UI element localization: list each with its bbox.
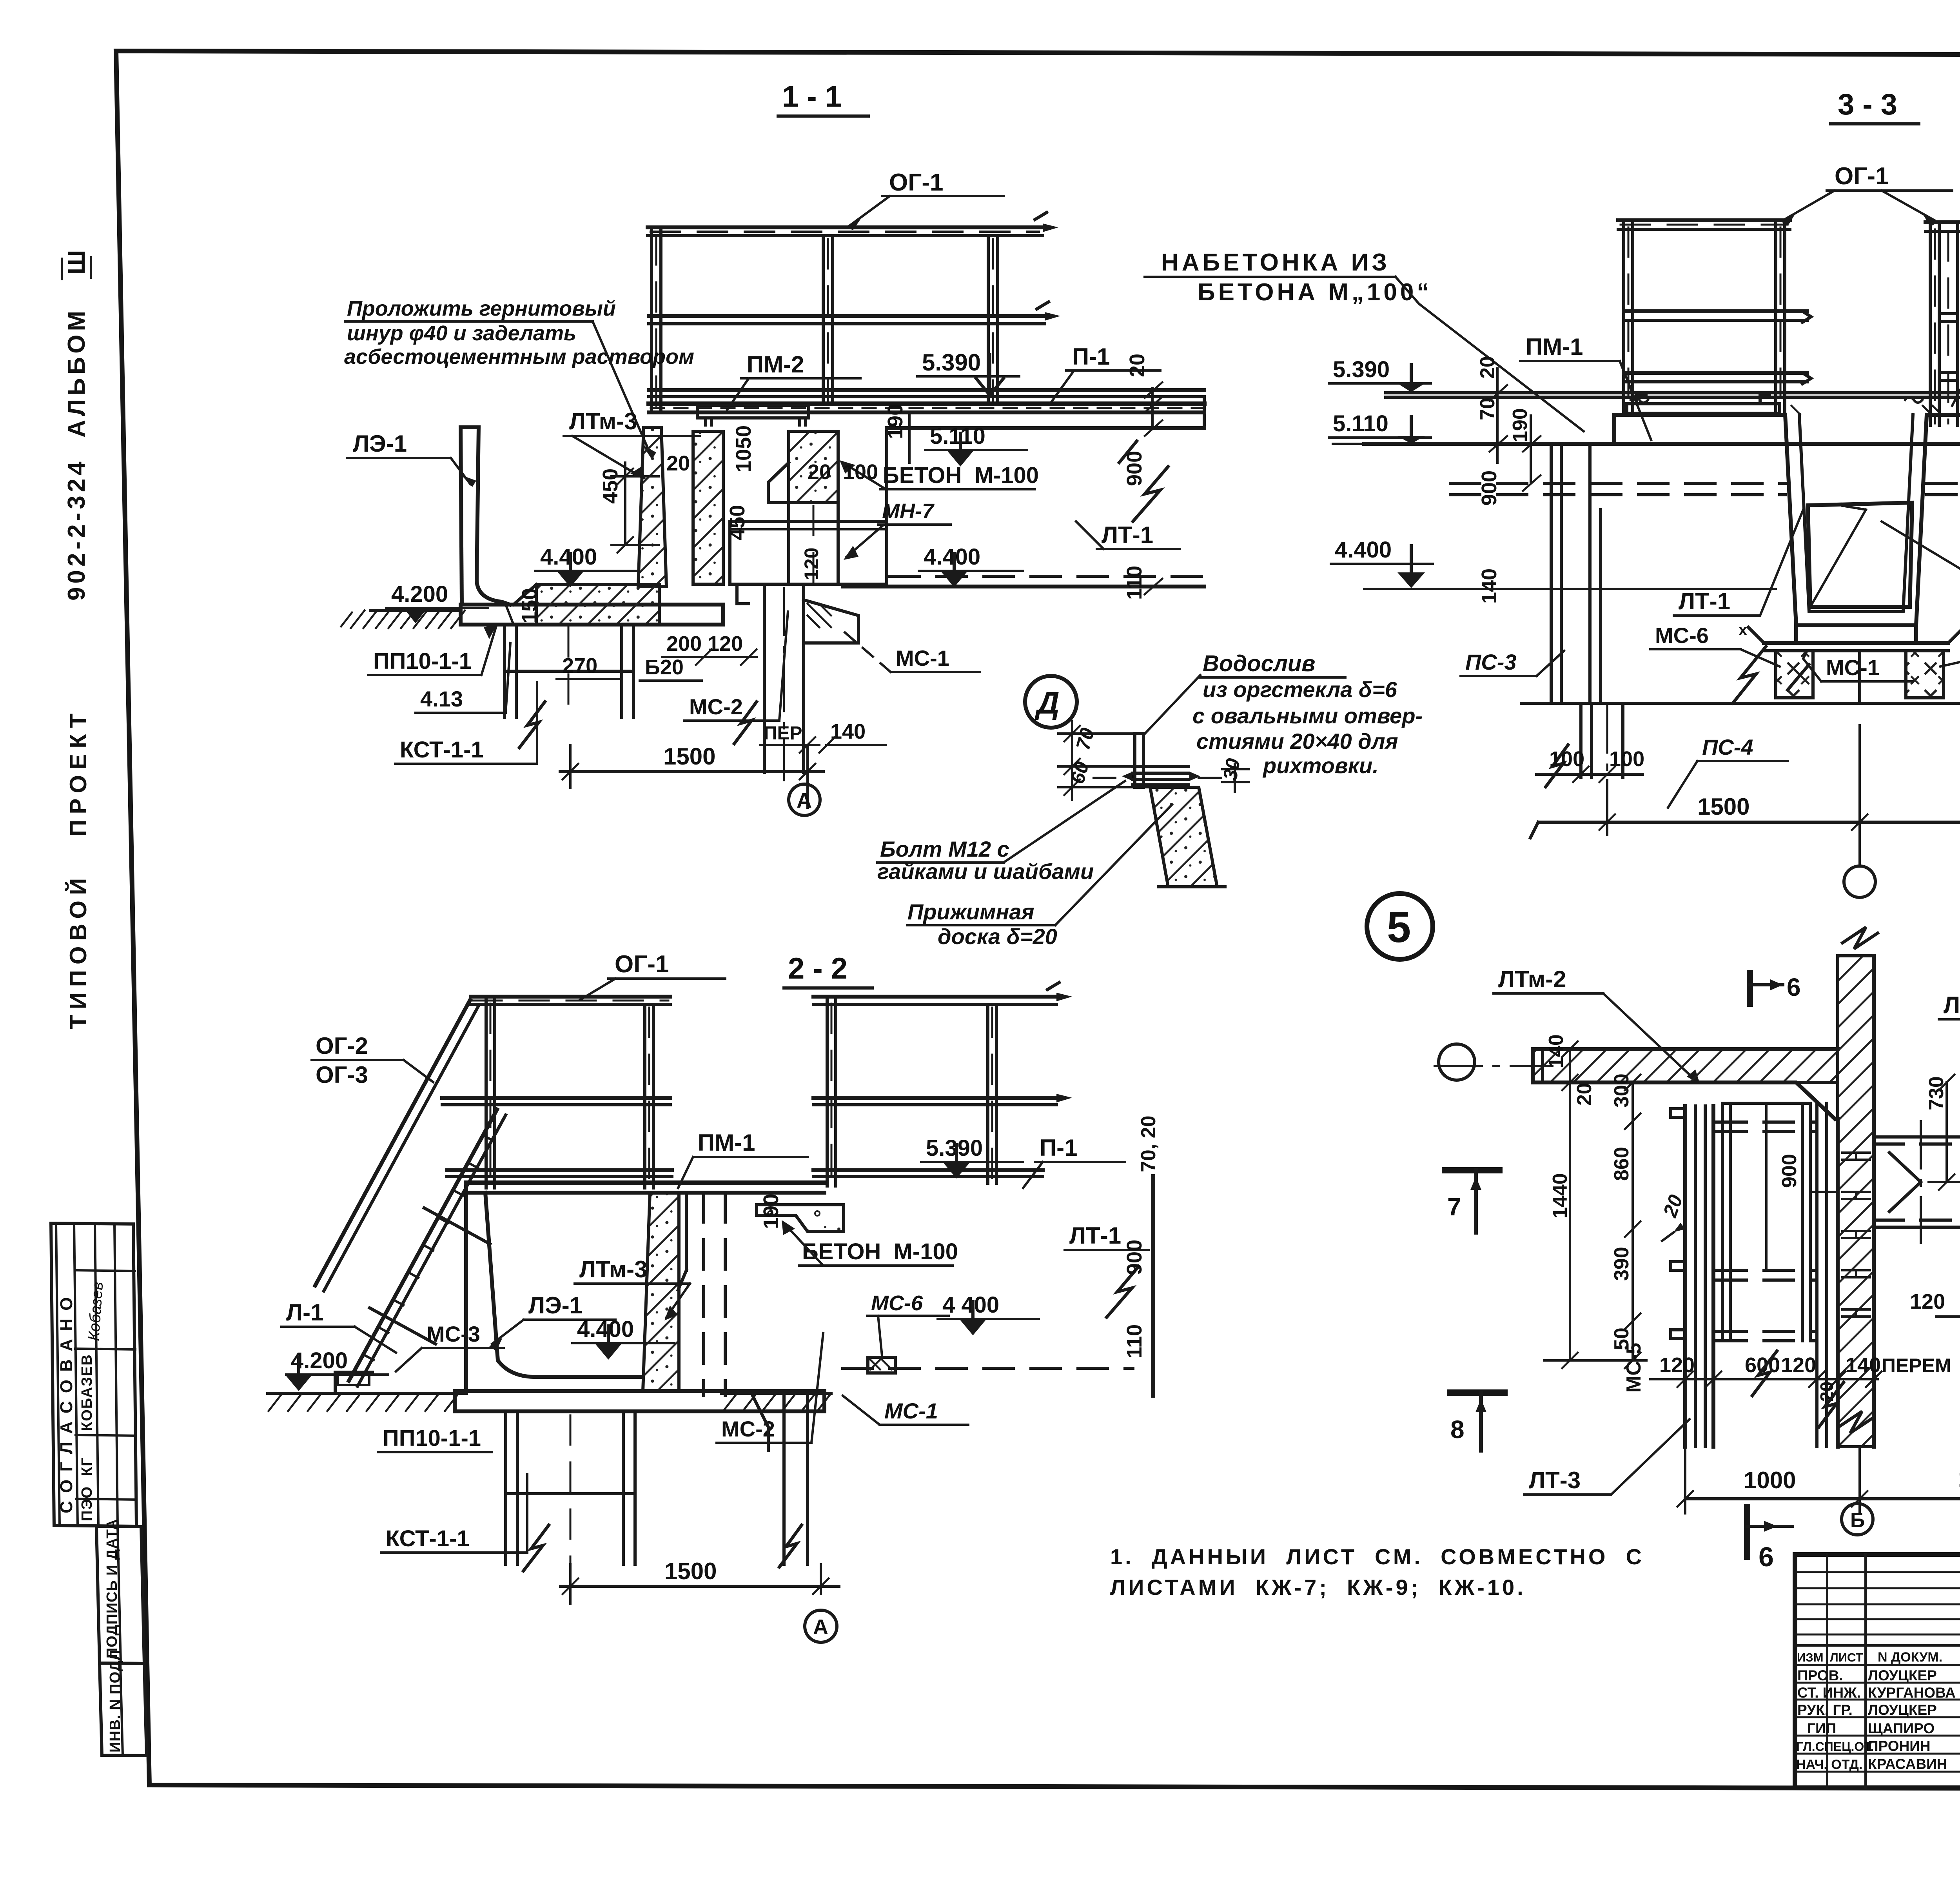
stamp table bottom-left: SOGLASOVANO block (51, 1223, 136, 1526)
svg-text:стиями 20×40 для: стиями 20×40 для (1196, 729, 1398, 754)
axis circle A (1-1) (789, 784, 820, 815)
node5 top wall horizontal hatched (1533, 1049, 1838, 1119)
label PM-1 (3-3) (1520, 334, 1651, 440)
svg-text:70, 20: 70, 20 (1137, 1115, 1160, 1172)
node5 dim 900 inside (1766, 1103, 1835, 1270)
svg-text:МС-1: МС-1 (896, 646, 949, 670)
svg-text:120: 120 (800, 548, 822, 580)
svg-text:4.400: 4.400 (1335, 537, 1392, 563)
2-2 left railing (442, 997, 672, 1188)
svg-text:П-1: П-1 (1072, 343, 1110, 370)
1-1 ground line and hatch (341, 581, 488, 628)
svg-text:СТ. ИНЖ.: СТ. ИНЖ. (1797, 1685, 1861, 1701)
label LTm-3 (564, 408, 700, 480)
1-1 railing mid rail (649, 302, 1060, 324)
svg-text:ИЗМ: ИЗМ (1797, 1651, 1824, 1664)
3-3 axis line and circle (1844, 725, 1875, 897)
svg-text:МС-1: МС-1 (1826, 655, 1880, 680)
svg-text:НАБЕТОНКА ИЗ: НАБЕТОНКА ИЗ (1161, 249, 1390, 276)
svg-text:450: 450 (599, 469, 622, 504)
node5 axis circle left (1435, 1044, 1552, 1080)
svg-text:ЛИСТАМИ КЖ-7; КЖ-9; КЖ-10.: ЛИСТАМИ КЖ-7; КЖ-9; КЖ-10. (1110, 1575, 1526, 1600)
label OG-1 (3-3) (1781, 163, 1952, 227)
svg-text:ПМ-1: ПМ-1 (698, 1130, 755, 1156)
label LTm-2 (node5) (1494, 966, 1700, 1084)
labels bottom 1-1 (368, 588, 980, 764)
svg-text:гайками и шайбами: гайками и шайбами (877, 859, 1094, 884)
svg-text:270: 270 (562, 654, 597, 677)
label PM-2 (727, 351, 860, 410)
1-1 lower rail / platform handrail (649, 390, 1204, 397)
2-2 dim 1500 (561, 1558, 839, 1604)
2-2 platform PM-1 label (678, 1130, 808, 1188)
label Beton M-100 (1-1) (840, 460, 1039, 489)
1-1 base slab (461, 605, 723, 625)
svg-text:КРАСАВИН: КРАСАВИН (1868, 1756, 1947, 1772)
svg-text:4.13: 4.13 (420, 686, 463, 711)
svg-text:ЛТм-2: ЛТм-2 (1498, 966, 1566, 992)
svg-text:900: 900 (1477, 470, 1501, 506)
svg-text:4 400: 4 400 (942, 1292, 999, 1318)
sheet note (1110, 1544, 1644, 1600)
2-2 MS-6 bracket (867, 1291, 949, 1373)
2-2 stair stringers L-1 (321, 1110, 506, 1393)
svg-text:7: 7 (1447, 1193, 1461, 1221)
svg-text:ЛОУЦКЕР: ЛОУЦКЕР (1868, 1702, 1937, 1718)
svg-text:120: 120 (1659, 1353, 1695, 1377)
2-2 PP10-1-1 label (378, 1426, 492, 1452)
svg-text:1. ДАННЫИ ЛИСТ СМ. СОВМЕСТ: 1. ДАННЫИ ЛИСТ СМ. СОВМЕСТНО С (1110, 1544, 1644, 1569)
svg-text:Ш: Ш (63, 250, 90, 274)
section marker 6 bottom (1747, 1507, 1793, 1572)
svg-text:390: 390 (1610, 1247, 1633, 1281)
level mark 4.400 left (1-1) (535, 544, 639, 587)
1-1 break mark on LT-1 (1119, 441, 1168, 521)
label OG-1 (1-1) (847, 169, 1004, 230)
2-2 LT-1 (843, 1176, 1153, 1396)
weir detail dims 60 70 (1058, 721, 1149, 800)
left margin vertical text: TIPOVOI PROEKT (65, 708, 91, 1029)
labels MS-6 MS-1 (3-3) (1650, 623, 1960, 702)
1-1 right hatched pier + MN-7 box (768, 431, 838, 584)
2-2 level 4400 right (938, 1292, 1039, 1335)
1-1 dim 1500 (560, 743, 823, 808)
svg-text:ПЭО КГ: ПЭО КГ (79, 1457, 95, 1521)
svg-text:1 - 1: 1 - 1 (782, 80, 842, 113)
svg-text:5.390: 5.390 (922, 349, 981, 376)
detail D circle (mid page) (1025, 676, 1077, 728)
note nabetonka (1145, 249, 1584, 431)
svg-text:120: 120 (708, 632, 743, 656)
svg-text:1000: 1000 (1744, 1467, 1796, 1493)
level 4.200 (2-2) (285, 1348, 388, 1391)
svg-text:140: 140 (830, 720, 866, 743)
svg-text:x: x (1739, 621, 1747, 639)
2-2 tank floor slab (455, 1391, 824, 1411)
title block small table grid (1795, 1554, 1960, 1788)
section marker 6 top (1750, 973, 1801, 1004)
svg-text:120: 120 (1781, 1353, 1816, 1377)
svg-text:ПЕР: ПЕР (764, 723, 802, 744)
svg-text:ОГ-1: ОГ-1 (1835, 163, 1889, 190)
svg-text:120: 120 (1910, 1290, 1945, 1313)
1-1 walkway plank PM-2 (697, 405, 809, 425)
level mark 4.400 right (1-1) (919, 544, 1023, 587)
svg-text:Прижимная: Прижимная (907, 899, 1034, 924)
1-1 wall LTm-3 hatched (638, 427, 666, 587)
note bolt M12 (877, 781, 1125, 884)
node5 wall inner edge (1838, 956, 1874, 1447)
svg-text:ТИПОВОЙ ПРОЕКТ: ТИПОВОЙ ПРОЕКТ (65, 708, 91, 1029)
2-2 beton label (782, 1220, 958, 1266)
left margin vertical text: 902-2-324 ALBOM III (62, 250, 91, 601)
node5 dims 1000 1500 (1677, 1447, 1960, 1513)
level mark 5.110 (1-1) (925, 423, 1027, 467)
note prolozhit gernitovy shnur (344, 297, 694, 459)
heading 1-1 (778, 80, 868, 116)
3-3 left railing (1618, 220, 1811, 413)
3-3 platform slab (1364, 393, 1960, 444)
weir detail dim 30 (1219, 757, 1249, 792)
1-1 middle hatched pier (693, 431, 723, 584)
svg-text:20: 20 (1817, 1382, 1837, 1402)
svg-text:902-2-324 АЛЬБОМ: 902-2-324 АЛЬБОМ (63, 307, 90, 601)
svg-text:КСТ-1-1: КСТ-1-1 (386, 1526, 470, 1551)
svg-text:4.400: 4.400 (924, 544, 980, 570)
3-3 bottom break line (1521, 646, 1960, 703)
svg-text:ЛТ-3: ЛТ-3 (1529, 1467, 1581, 1493)
label MN-7 (844, 499, 951, 560)
svg-text:70: 70 (1476, 398, 1499, 420)
svg-text:900: 900 (1123, 1240, 1146, 1275)
svg-text:1440: 1440 (1549, 1173, 1572, 1219)
3-3 dims left rotated (1476, 356, 1541, 604)
svg-text:150: 150 (518, 588, 541, 623)
svg-text:шнур φ40 и заделать: шнур φ40 и заделать (347, 321, 576, 345)
svg-text:А: А (797, 789, 812, 812)
3-3 dims 100 100 (1537, 747, 1644, 782)
svg-text:ПЕРЕМ: ПЕРЕМ (1882, 1355, 1951, 1377)
node circle 5 (1367, 893, 1433, 959)
title block frame (1795, 1554, 1960, 1788)
svg-text:Б20: Б20 (645, 656, 684, 679)
label L-1 (281, 1299, 396, 1353)
svg-text:МС-1: МС-1 (884, 1398, 938, 1423)
svg-text:ГЛ.СПЕЦ.ОТ.: ГЛ.СПЕЦ.ОТ. (1796, 1740, 1874, 1754)
1-1 railing top rail (648, 212, 1058, 236)
svg-text:ПМ-1: ПМ-1 (1526, 334, 1583, 360)
level mark 5.390 (1-1) (917, 349, 1019, 395)
svg-text:900: 900 (1123, 451, 1146, 486)
svg-text:860: 860 (1610, 1147, 1633, 1181)
3-3 level marks 5.390 5.110 (1329, 357, 1431, 444)
svg-text:1500: 1500 (663, 743, 715, 770)
label OG-1 (2-2) (580, 951, 725, 1000)
svg-text:НАЧ. ОТД.: НАЧ. ОТД. (1796, 1757, 1862, 1772)
svg-text:6: 6 (1759, 1542, 1774, 1572)
2-2 ground hatch (268, 1393, 831, 1411)
svg-text:730: 730 (1925, 1076, 1948, 1110)
svg-text:1050: 1050 (732, 425, 755, 472)
svg-text:ГИП: ГИП (1807, 1720, 1836, 1736)
svg-text:Водослив: Водослив (1203, 651, 1315, 676)
3-3 MS-9 inner box (1808, 503, 1912, 607)
node5 dims bottom 120 600 120 140 PEREM (1650, 1353, 1951, 1402)
LT-7 plan dims 120 300 300 120 (1910, 1290, 1960, 1324)
2-2 tank walls (466, 1183, 824, 1391)
svg-text:П-1: П-1 (1040, 1135, 1077, 1161)
svg-text:5.390: 5.390 (926, 1135, 983, 1161)
svg-text:МН-7: МН-7 (882, 499, 935, 523)
svg-text:190: 190 (1509, 408, 1532, 442)
label MS-3 (396, 1322, 504, 1371)
svg-text:6: 6 (1787, 973, 1801, 1001)
label LT-1 (1-1) (1076, 521, 1180, 549)
svg-text:ПС-3: ПС-3 (1465, 650, 1517, 674)
svg-text:ПОДПИСЬ И ДАТА: ПОДПИСЬ И ДАТА (104, 1519, 120, 1658)
stamp table bottom-left: INV N PODL box (100, 1650, 147, 1756)
svg-text:5: 5 (1387, 903, 1411, 952)
svg-text:110: 110 (1123, 566, 1146, 600)
section marker 7 left (1445, 1170, 1499, 1233)
svg-text:Проложить гернитовый: Проложить гернитовый (347, 297, 616, 320)
3-3 background walls (1551, 444, 1601, 703)
svg-text:БЕТОНА М„100“: БЕТОНА М„100“ (1198, 279, 1432, 306)
svg-text:ЛИСТ: ЛИСТ (1830, 1651, 1863, 1664)
svg-text:из оргстекла δ=6: из оргстекла δ=6 (1203, 677, 1397, 702)
1-1 inner chamber box (730, 521, 887, 584)
svg-text:190: 190 (759, 1194, 783, 1229)
label LT-1 (3-3) (1674, 510, 1803, 616)
node5 gate panel (1717, 1103, 1827, 1447)
svg-text:МС-3: МС-3 (426, 1322, 480, 1346)
1-1 left wall LE-1 (461, 427, 510, 605)
node5 pipe to right (1874, 1121, 1960, 1243)
2-2 level 5.390 (921, 1135, 1023, 1179)
svg-text:КОБАЗЕВ: КОБАЗЕВ (79, 1354, 95, 1431)
svg-text:ОГ-1: ОГ-1 (615, 951, 669, 978)
node5 vertical wall hatched (1838, 927, 1878, 1447)
node5 dim 730 (1925, 1075, 1960, 1190)
svg-text:5.110: 5.110 (930, 423, 985, 449)
node5 dim 20 italic (1659, 1192, 1687, 1241)
2-2 label P-1 (1023, 1135, 1125, 1188)
svg-text:20: 20 (666, 452, 690, 475)
svg-text:ЛТ-1: ЛТ-1 (1679, 588, 1730, 614)
svg-text:ПП10-1-1: ПП10-1-1 (383, 1426, 481, 1451)
svg-text:РУК. ГР.: РУК. ГР. (1797, 1702, 1853, 1718)
svg-text:4.400: 4.400 (577, 1317, 634, 1342)
svg-text:А: А (813, 1615, 828, 1639)
svg-text:110: 110 (1123, 1324, 1146, 1358)
label LE-1 (347, 430, 476, 487)
label LT-3 (node5) (1524, 1419, 1690, 1495)
svg-text:МС-5: МС-5 (1622, 1343, 1645, 1393)
svg-text:450: 450 (726, 505, 749, 540)
svg-text:5.110: 5.110 (1333, 411, 1388, 436)
heading 3-3 (1831, 88, 1919, 124)
svg-text:ПС-4: ПС-4 (1702, 735, 1753, 759)
label P-1 (1-1) (1051, 343, 1160, 403)
svg-text:МС-2: МС-2 (689, 694, 743, 719)
svg-text:рихтовки.: рихтовки. (1262, 753, 1379, 778)
svg-text:100: 100 (1549, 747, 1584, 771)
svg-text:ОГ-1: ОГ-1 (889, 169, 944, 196)
svg-text:МС-6: МС-6 (1655, 623, 1709, 648)
svg-text:4.200: 4.200 (391, 581, 448, 607)
axis circle B (node5) (1842, 1504, 1873, 1535)
svg-text:ПРОВ.: ПРОВ. (1797, 1667, 1843, 1683)
svg-text:асбестоцементным раствором: асбестоцементным раствором (344, 345, 694, 369)
svg-text:Л-1: Л-1 (286, 1299, 323, 1326)
svg-text:ЛЭ-1: ЛЭ-1 (353, 430, 407, 457)
label P-1 (3-3) (1952, 292, 1960, 406)
svg-text:1500: 1500 (1958, 1466, 1960, 1492)
1-1 hatched footing (514, 585, 659, 625)
svg-text:МС-6: МС-6 (871, 1291, 923, 1315)
3-3 supports under trough (1739, 621, 1960, 698)
label LT-7 (1939, 992, 1960, 1059)
svg-text:ЛЭ-1: ЛЭ-1 (528, 1292, 583, 1318)
svg-text:140: 140 (1477, 568, 1501, 604)
1-1 foundation walls below (505, 625, 633, 748)
label PS-4 (1668, 735, 1788, 808)
3-3 dim 1500 (1530, 780, 1960, 838)
2-2 dashed channel (678, 1193, 725, 1396)
svg-text:доска δ=20: доска δ=20 (938, 924, 1057, 949)
svg-text:Д: Д (1034, 685, 1060, 720)
2-2 foundation below (506, 1396, 808, 1571)
svg-text:30: 30 (1219, 757, 1244, 782)
svg-text:С О Г Л А С О В А Н О: С О Г Л А С О В А Н О (57, 1296, 76, 1513)
2-2 dims right column (759, 1115, 1160, 1358)
title block small table texts (1796, 1650, 1960, 1772)
node5 MS-5 channel (1671, 1106, 1713, 1447)
2-2 beton patch (757, 1205, 844, 1231)
2-2 right railing (813, 982, 1072, 1186)
svg-text:2 - 2: 2 - 2 (788, 952, 848, 985)
2-2 stair handrail OG-2/OG-3 (315, 1000, 479, 1291)
svg-text:1500: 1500 (664, 1558, 717, 1584)
svg-text:ПРОНИН: ПРОНИН (1868, 1738, 1931, 1754)
3-3 central trough (1785, 415, 1927, 643)
svg-text:ЛТ-1: ЛТ-1 (1102, 522, 1153, 548)
svg-text:20: 20 (1573, 1083, 1596, 1106)
svg-text:140: 140 (1846, 1353, 1881, 1377)
label OG-2 OG-3 (312, 1033, 433, 1088)
stamp table bottom-left: PODPIS I DATA box (96, 1519, 144, 1663)
heading 2-2 (784, 952, 872, 988)
svg-text:с овальными отвер-: с овальными отвер- (1192, 703, 1423, 728)
1-1 center pier below (734, 587, 858, 780)
svg-text:140: 140 (1545, 1034, 1568, 1068)
1-1 platform slab P-1 (649, 397, 1204, 428)
note prizhimnaya doska (907, 804, 1172, 949)
node5 dims left column (1544, 1034, 1646, 1368)
svg-text:20: 20 (1125, 354, 1149, 377)
svg-text:200: 200 (666, 632, 702, 656)
3-3 level 4.400 (1331, 537, 1776, 589)
svg-text:190: 190 (884, 404, 907, 439)
2-2 MS-1 MS-2 bottom (717, 1333, 968, 1443)
1-1 railing posts (652, 227, 998, 411)
svg-text:1500: 1500 (1697, 794, 1749, 820)
2-2 labels inside tank (489, 1256, 690, 1360)
svg-text:20: 20 (1476, 356, 1499, 379)
3-3 right railing (1926, 222, 1960, 425)
2-2 KST-1-1 label (381, 1474, 527, 1553)
svg-text:КСТ-1-1: КСТ-1-1 (400, 737, 484, 763)
label PS-3 (1461, 650, 1564, 676)
svg-text:ЛТм-3: ЛТм-3 (579, 1256, 647, 1282)
svg-text:Б: Б (1850, 1509, 1865, 1532)
2-2 wall LTm-3 hatched (2-2) (643, 1193, 679, 1391)
1-1 LT-1 slab right (843, 428, 1204, 587)
weir detail hatched wall (1150, 787, 1225, 887)
node5 break marks bottom (1752, 1351, 1844, 1427)
svg-text:20: 20 (808, 460, 831, 484)
svg-text:БЕТОН М-100: БЕТОН М-100 (883, 463, 1039, 488)
weir plate detail (1094, 734, 1221, 787)
svg-text:ОГ-3: ОГ-3 (316, 1062, 368, 1088)
svg-text:ПП10-1-1: ПП10-1-1 (373, 648, 472, 674)
axis circle A (2-2) (805, 1610, 837, 1642)
svg-text:100: 100 (843, 460, 878, 484)
3-3 walls below break (1546, 703, 1623, 787)
right side dims 1-1 (1123, 354, 1162, 600)
svg-text:5.390: 5.390 (1333, 357, 1390, 382)
svg-text:900: 900 (1778, 1154, 1801, 1188)
note vodosliv iz orgstekla (handwritten) (1145, 651, 1423, 778)
svg-text:4.400: 4.400 (540, 544, 597, 570)
svg-text:8: 8 (1450, 1415, 1465, 1444)
svg-text:ЛТм-3: ЛТм-3 (569, 408, 637, 434)
label MS-9 (1882, 521, 1960, 587)
node5 wall I-beam inserts (1842, 1153, 1870, 1317)
svg-text:КУРГАНОВА: КУРГАНОВА (1868, 1685, 1956, 1701)
svg-text:ЛТ-7: ЛТ-7 (1944, 992, 1960, 1018)
svg-text:Болт М12 с: Болт М12 с (880, 837, 1009, 861)
svg-text:300: 300 (1610, 1073, 1633, 1108)
section marker 8 left (1450, 1393, 1504, 1451)
svg-text:ИНВ. N ПОДЛ: ИНВ. N ПОДЛ (107, 1650, 123, 1752)
svg-text:ЩАПИРО: ЩАПИРО (1868, 1720, 1935, 1736)
rotated dims 1-1 interior (599, 404, 937, 580)
svg-text:ОГ-2: ОГ-2 (316, 1033, 368, 1059)
3-3 dashed water level (1450, 483, 1960, 495)
svg-text:ПМ-2: ПМ-2 (747, 351, 804, 378)
svg-text:ЛОУЦКЕР: ЛОУЦКЕР (1868, 1667, 1937, 1683)
svg-text:N ДОКУМ.: N ДОКУМ. (1878, 1650, 1942, 1665)
node5 MS-5 vertical label (1622, 1343, 1645, 1393)
svg-text:БЕТОН М-100: БЕТОН М-100 (802, 1239, 958, 1264)
svg-text:ЛТ-1: ЛТ-1 (1069, 1222, 1121, 1249)
svg-text:3 - 3: 3 - 3 (1838, 88, 1897, 121)
